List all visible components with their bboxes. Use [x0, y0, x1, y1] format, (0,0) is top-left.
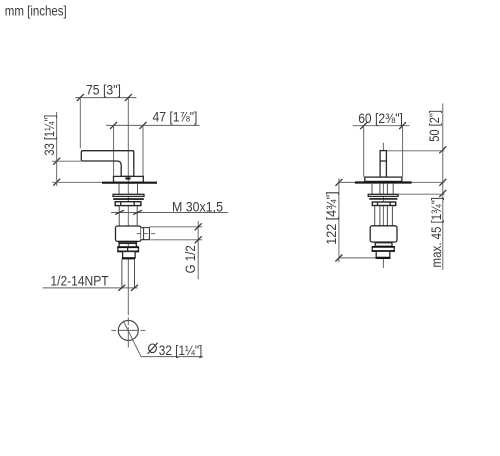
washer A (right view): [368, 194, 398, 196]
dimension 60 [2 3/8"]: [353, 110, 410, 177]
threaded shank (right view): [375, 206, 393, 226]
washer B dark (right view): [369, 198, 397, 200]
valve body block (left view): [116, 226, 142, 241]
units note "mm [inches]": [5, 2, 67, 18]
lever handle: [81, 151, 134, 177]
washer A (left view): [113, 194, 144, 196]
cartridge stub (right view): [380, 151, 386, 178]
handle base cap: [114, 176, 144, 182]
side port G1/2 (left view): [137, 228, 156, 240]
svg-text:32 [1¼"]: 32 [1¼"]: [159, 342, 203, 358]
deck mounting surface (right view): [355, 181, 412, 183]
valve body block (right view): [370, 226, 397, 242]
svg-text:G 1/2: G 1/2: [182, 245, 198, 273]
lower nut (right view): [372, 247, 395, 251]
neck below deck (left view): [119, 184, 138, 194]
lower washer (right view): [375, 243, 392, 246]
svg-text:50 [2"]: 50 [2"]: [427, 110, 442, 142]
dimension 50 [2"] and max. 45 [1 3/4"]: [387, 104, 447, 271]
tail adapter (left view): [122, 252, 135, 259]
escutcheon plate (right view): [365, 177, 402, 181]
svg-text:75 [3"]: 75 [3"]: [86, 82, 121, 98]
dimension 47 [1 7/8"]: [106, 109, 200, 176]
bottom view circle (drain hole): [111, 317, 145, 347]
dimension G 1/2: [150, 221, 203, 280]
svg-text:122 [4¾"]: 122 [4¾"]: [323, 191, 339, 244]
svg-text:mm [inches]: mm [inches]: [5, 2, 67, 18]
dimension 33 [1 1/4"]: [42, 112, 103, 186]
mounting nut (left view): [115, 202, 141, 206]
label 1/2-14NPT with leader: [43, 273, 138, 291]
svg-text:33 [1¼"]: 33 [1¼"]: [42, 115, 58, 156]
svg-text:max. 45 [1¾"]: max. 45 [1¾"]: [428, 197, 444, 267]
dimension 75 [3"]: [75, 82, 136, 149]
neck below deck (right view): [372, 184, 393, 195]
threaded shank M30 (left view): [119, 206, 137, 226]
lower nut (left view): [117, 247, 139, 251]
dimension 122 [4 3/4"]: [323, 178, 377, 262]
supply tube 1/2-14NPT (left view): [122, 259, 135, 287]
tail piece (right view): [376, 251, 391, 258]
washer B dark (left view): [113, 198, 144, 200]
svg-text:1/2-14NPT: 1/2-14NPT: [50, 273, 108, 289]
centerline left view: [127, 98, 129, 316]
deck mounting surface (left view): [102, 182, 157, 184]
mounting nut (right view): [372, 202, 395, 206]
svg-text:M 30x1,5: M 30x1,5: [172, 199, 223, 215]
svg-text:60 [2⅜"]: 60 [2⅜"]: [358, 110, 403, 126]
label diameter 32 with leader: [123, 321, 203, 359]
label M 30x1,5 with leader: [111, 199, 228, 215]
flare trapezoid (left view): [119, 243, 137, 247]
step below block (left view): [119, 242, 136, 244]
svg-text:47 [1⅞"]: 47 [1⅞"]: [153, 109, 198, 125]
centerline right view: [382, 143, 384, 268]
